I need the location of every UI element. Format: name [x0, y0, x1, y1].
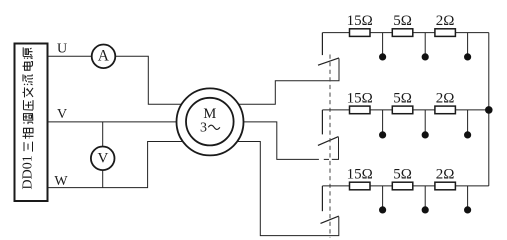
svg-text:5Ω: 5Ω: [393, 167, 412, 183]
row3 tap wire c: [467, 186, 469, 207]
wire motor right top to switch S1: [239, 59, 340, 105]
resistor R33 2Ω: [435, 182, 456, 190]
svg-text:2Ω: 2Ω: [436, 167, 455, 183]
row1 tap node b: [422, 53, 429, 60]
row3 tap node c: [464, 206, 471, 213]
svg-text:2Ω: 2Ω: [436, 13, 455, 29]
row 2 bus wire: [322, 109, 488, 111]
switch S2 contact: [321, 110, 323, 134]
resistor R31 15Ω: [350, 182, 371, 190]
switch S3 blade: [321, 216, 339, 223]
resistor R32 5Ω: [392, 182, 413, 190]
wire voltmeter branch bottom: [102, 170, 104, 187]
svg-text:A: A: [98, 48, 110, 65]
svg-text:15Ω: 15Ω: [347, 13, 373, 29]
power source label glyph 调: [24, 114, 34, 125]
switch S1 blade: [318, 58, 339, 65]
ammeter A: [92, 45, 116, 69]
switch S1 contact: [321, 33, 323, 56]
wire U: ammeter to corner, down, to motor: [115, 56, 182, 104]
power source label glyph 电: [23, 62, 33, 71]
row2 tap wire c: [467, 110, 469, 132]
wire U: box to ammeter: [48, 55, 93, 57]
svg-text:15Ω: 15Ω: [347, 167, 373, 183]
svg-text:V: V: [57, 107, 67, 122]
row 3 bus wire: [322, 185, 488, 187]
motor M outer circle: [177, 88, 244, 155]
voltmeter V: [91, 147, 115, 171]
switch S2 blade: [318, 137, 339, 146]
svg-text:5Ω: 5Ω: [393, 13, 412, 29]
star point junction dot: [485, 106, 493, 114]
motor label tilde: [208, 125, 220, 129]
wire S2 gap dash: [324, 158, 329, 160]
resistor R12 5Ω: [392, 29, 413, 37]
row3 tap wire a: [382, 186, 384, 207]
row2 tap node c: [464, 131, 471, 138]
wire V: box to motor: [48, 121, 178, 123]
row1 tap wire a: [382, 33, 384, 54]
resistor R23 2Ω: [435, 106, 456, 114]
wire S2 terminal segment: [332, 137, 339, 159]
switch mechanical linkage dashed line: [329, 55, 331, 238]
power source box DD01: [15, 44, 48, 202]
wire voltmeter branch top: [102, 122, 104, 147]
row3 tap node b: [422, 206, 429, 213]
power source label glyph 交: [23, 87, 34, 97]
power source label glyph 压: [24, 100, 34, 110]
row2 tap wire a: [382, 110, 384, 132]
svg-text:U: U: [57, 41, 67, 56]
resistor R21 15Ω: [350, 106, 371, 114]
resistor R22 5Ω: [392, 106, 413, 114]
row1 tap node a: [379, 53, 386, 60]
row1 tap wire c: [467, 33, 469, 54]
resistor R13 2Ω: [435, 29, 456, 37]
row 1 bus wire: [322, 32, 488, 34]
svg-text:3: 3: [200, 121, 207, 136]
row3 tap wire b: [424, 186, 426, 207]
wire motor right bottom to switch S3: [238, 142, 339, 236]
row1 tap node c: [464, 53, 471, 60]
svg-text:W: W: [54, 174, 68, 189]
power source label glyph 三: [24, 142, 33, 152]
switch S3 contact: [321, 186, 323, 211]
power source label glyph 流: [23, 74, 33, 85]
row2 tap node a: [379, 131, 386, 138]
row2 tap node b: [422, 131, 429, 138]
wire motor right middle to switch S2: [244, 122, 319, 159]
wire W: box to corner to motor: [48, 142, 183, 188]
star bus right vertical: [488, 33, 490, 186]
resistor R11 15Ω: [350, 29, 371, 37]
svg-text:V: V: [97, 151, 108, 167]
svg-text:15Ω: 15Ω: [347, 91, 373, 107]
svg-text:5Ω: 5Ω: [393, 91, 412, 107]
svg-text:DD01: DD01: [21, 155, 36, 189]
power source label glyph 相: [23, 128, 34, 139]
row3 tap node a: [379, 206, 386, 213]
motor M inner circle: [186, 98, 234, 146]
svg-text:2Ω: 2Ω: [436, 91, 455, 107]
row2 tap wire b: [424, 110, 426, 132]
power source label glyph 源: [23, 47, 33, 58]
row1 tap wire b: [424, 33, 426, 54]
